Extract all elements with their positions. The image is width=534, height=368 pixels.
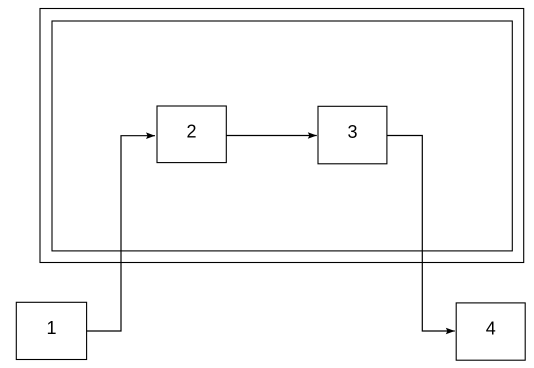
svg-text:4: 4 bbox=[486, 318, 496, 338]
svg-text:2: 2 bbox=[186, 122, 196, 142]
svg-text:1: 1 bbox=[46, 318, 56, 338]
svg-text:3: 3 bbox=[347, 122, 357, 142]
